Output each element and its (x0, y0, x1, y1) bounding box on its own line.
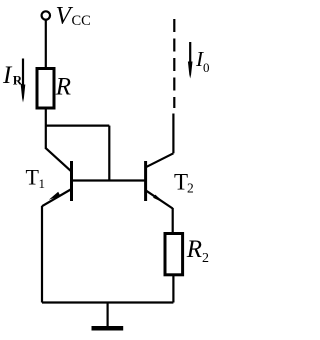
svg-text:2: 2 (187, 181, 194, 196)
svg-text:1: 1 (39, 176, 46, 191)
wire R bottom to T1 collector junction (45, 108, 47, 149)
transistor T2 collector lead (146, 153, 174, 167)
transistor T2 emitter lead (146, 190, 173, 208)
transistor T1 emitter arrowhead (49, 192, 61, 200)
svg-text:CC: CC (72, 13, 91, 29)
current arrow I0 line (189, 42, 191, 64)
svg-text:R: R (55, 74, 71, 101)
transistor T1 base bar (70, 161, 73, 201)
transistor T1 collector lead (46, 148, 72, 171)
terminal Vcc (42, 11, 50, 19)
wire collector-base tie: horizontal branch (46, 124, 110, 126)
transistor T2 base bar (144, 161, 147, 201)
transistor T1 emitter lead (42, 189, 72, 206)
resistor R2 (165, 234, 183, 275)
wire collector-base tie: vertical drop to base rail (108, 126, 110, 181)
current arrow I0 head (188, 62, 193, 79)
wire T2 emitter down to R2 (172, 208, 174, 234)
wire dashed output line (173, 19, 175, 108)
resistor R (37, 69, 54, 109)
svg-text:T: T (174, 169, 188, 194)
svg-text:2: 2 (202, 251, 209, 266)
current arrow IR head (21, 85, 26, 103)
svg-text:0: 0 (203, 60, 210, 75)
current arrow IR line (22, 59, 24, 89)
wire R2 bottom to rail (172, 275, 174, 303)
svg-text:R: R (13, 73, 23, 88)
wire base rail T1 to T2 (72, 179, 146, 181)
wire bottom rail (42, 301, 173, 303)
svg-text:T: T (26, 165, 40, 190)
wire T1 emitter down (41, 206, 43, 303)
wire T2 collector up (172, 114, 174, 154)
transistor T2 emitter arrowhead (153, 195, 165, 204)
wire Vcc to R top (45, 20, 47, 69)
svg-text:R: R (186, 236, 202, 263)
ground (106, 303, 108, 329)
